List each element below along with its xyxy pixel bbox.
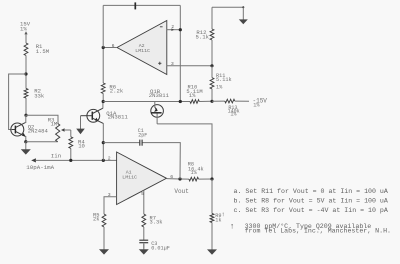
wire A1 pin3 bbox=[104, 197, 117, 214]
svg-text:3: 3 bbox=[108, 192, 111, 198]
wire to R3 top bbox=[26, 115, 58, 123]
node junction base feed bbox=[24, 72, 27, 75]
transistor Q2 bbox=[11, 123, 24, 136]
wire mirror rail bbox=[103, 101, 190, 103]
resistor R10 bbox=[190, 100, 199, 104]
node collector junction bbox=[24, 114, 27, 117]
capacitor C2 tick bbox=[134, 2, 136, 9]
ground below Q2 bbox=[25, 142, 27, 151]
svg-text:2N2484: 2N2484 bbox=[28, 128, 49, 135]
arrow 15V up bbox=[24, 31, 27, 34]
wire pin3 to R11 bbox=[211, 66, 213, 78]
node R6 bottom bbox=[102, 100, 105, 103]
wire R4 to input line bbox=[70, 148, 72, 160]
node offset junction bbox=[210, 100, 213, 103]
svg-text:LM11C: LM11C bbox=[135, 48, 150, 54]
wire wiper to R4 bbox=[70, 130, 72, 137]
wire R6 to rail bbox=[102, 94, 104, 102]
svg-text:33k: 33k bbox=[34, 93, 45, 100]
wire A2 pin3 bbox=[167, 65, 212, 67]
resistor R13 bbox=[225, 99, 235, 103]
wire R2 to collector node bbox=[25, 98, 27, 115]
wire R1 to R2 bbox=[25, 56, 27, 89]
svg-text:1%: 1% bbox=[253, 103, 260, 109]
wire to R13 bbox=[212, 100, 225, 102]
wire A2out down to R6 bbox=[102, 48, 104, 84]
svg-text:1%: 1% bbox=[20, 26, 27, 33]
svg-text:1%: 1% bbox=[189, 93, 196, 99]
svg-text:Iin: Iin bbox=[51, 152, 61, 159]
ground below C3 bbox=[143, 243, 145, 249]
svg-text:5.11k: 5.11k bbox=[216, 77, 232, 83]
op-amp A1 LM11C bbox=[117, 152, 167, 205]
wire emitter to R3 bottom bbox=[26, 141, 58, 143]
resistor R2 bbox=[24, 89, 28, 99]
wire R13 end bbox=[235, 100, 249, 102]
wire R8 to rail bbox=[199, 178, 213, 180]
svg-text:1%: 1% bbox=[230, 112, 236, 118]
svg-text:1%: 1% bbox=[191, 170, 198, 176]
node A2 output junction bbox=[102, 46, 105, 49]
resistor R3 (pot) bbox=[56, 124, 60, 142]
arrow Iin input bbox=[31, 158, 36, 162]
node Q2 emitter junction bbox=[24, 140, 27, 143]
capacitor C3 bbox=[139, 239, 148, 241]
resistor R7 bbox=[142, 214, 146, 227]
svg-text:6: 6 bbox=[170, 174, 173, 180]
svg-text:1M: 1M bbox=[51, 121, 58, 128]
arrow on pin2 wire bbox=[171, 28, 174, 31]
wire A1 pin5 bbox=[143, 190, 145, 214]
wire to Q2 base bbox=[9, 74, 26, 130]
svg-text:5.1k: 5.1k bbox=[196, 34, 210, 41]
transistor Q1A bbox=[87, 109, 100, 122]
svg-text:Vout: Vout bbox=[174, 188, 188, 195]
svg-text:2N3811: 2N3811 bbox=[149, 92, 170, 99]
svg-text:3.3k: 3.3k bbox=[150, 219, 163, 225]
svg-text:2pF: 2pF bbox=[138, 132, 147, 138]
wiper arrow R3 bbox=[61, 128, 65, 131]
svg-text:2N3811: 2N3811 bbox=[108, 114, 129, 121]
ground below R9 bbox=[211, 223, 213, 251]
node R4 junction bbox=[69, 159, 72, 162]
svg-text:2: 2 bbox=[171, 25, 174, 30]
svg-text:3: 3 bbox=[171, 61, 174, 67]
resistor R8 bbox=[189, 177, 199, 181]
node pin3 junction bbox=[210, 64, 213, 67]
wire R11 to node bbox=[211, 89, 213, 101]
wire A2 pin2 bbox=[167, 29, 181, 31]
op-amp A2 LM11C bbox=[117, 21, 167, 75]
ground top right bbox=[242, 7, 244, 21]
svg-text:10: 10 bbox=[78, 143, 85, 150]
resistor R1 bbox=[24, 43, 28, 56]
node output junction bbox=[178, 177, 181, 180]
svg-text:b. Set R8 for Vout = 5V at Iin: b. Set R8 for Vout = 5V at Iin = 100 uA bbox=[234, 198, 388, 205]
wire R7 to C3 bbox=[143, 227, 145, 240]
svg-text:2: 2 bbox=[108, 156, 111, 162]
node pin2 junction bbox=[179, 28, 182, 31]
wire feedback left up bbox=[102, 5, 104, 47]
wire feedback right down bbox=[179, 5, 181, 101]
wire Q1A emitter down bbox=[102, 123, 104, 160]
wire C1 feedback bbox=[142, 143, 180, 179]
node rail pin2 junction bbox=[179, 100, 182, 103]
resistor R4 bbox=[69, 137, 73, 149]
resistor R5 bbox=[102, 214, 106, 227]
wire A1 output bbox=[167, 178, 181, 180]
node R8 rail junction bbox=[210, 177, 213, 180]
svg-text:10pA-1mA: 10pA-1mA bbox=[26, 164, 54, 171]
svg-text:2.2k: 2.2k bbox=[110, 87, 124, 94]
resistor R11 bbox=[210, 78, 214, 89]
wire rail to R9 bbox=[211, 179, 213, 214]
transistor Q1B bbox=[151, 105, 164, 118]
node corner bbox=[242, 6, 244, 8]
node summing junction bbox=[102, 159, 105, 162]
wire A2 output bbox=[103, 47, 117, 49]
svg-text:0.01µF: 0.01µF bbox=[151, 246, 170, 252]
node C1 tap bbox=[102, 141, 105, 144]
resistor R12 bbox=[210, 29, 214, 40]
capacitor C1 bbox=[139, 140, 141, 146]
ground below R5 bbox=[103, 227, 105, 251]
wire Q1B emitter bbox=[157, 124, 212, 179]
ground Q1A base bbox=[80, 116, 82, 129]
svg-text:2k: 2k bbox=[93, 216, 99, 222]
svg-text:1%: 1% bbox=[216, 84, 223, 90]
svg-text:from Tel Labs, Inc., Mancheste: from Tel Labs, Inc., Manchester, N.H. bbox=[245, 228, 391, 235]
svg-text:↑: ↑ bbox=[230, 223, 235, 232]
resistor R6 bbox=[101, 83, 105, 94]
wire rail top bbox=[211, 7, 213, 29]
resistor R9 bbox=[210, 214, 214, 223]
svg-text:1.5M: 1.5M bbox=[36, 48, 49, 55]
svg-text:↑: ↑ bbox=[221, 211, 225, 218]
svg-text:c. Set R3 for Vout = -4V at Ii: c. Set R3 for Vout = -4V at Iin = 10 pA bbox=[234, 207, 388, 214]
svg-text:5: 5 bbox=[141, 191, 144, 197]
wire R12 to pin3 bbox=[211, 40, 213, 66]
svg-text:LM11C: LM11C bbox=[122, 175, 137, 181]
svg-text:a. Set R11 for Vout = 0 at Iin: a. Set R11 for Vout = 0 at Iin = 100 uA bbox=[234, 188, 388, 195]
wire feedback top bbox=[103, 4, 180, 6]
wire top right corner bbox=[212, 6, 243, 8]
